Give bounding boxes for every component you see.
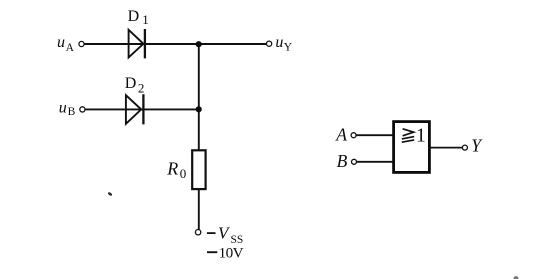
svg-text:V: V	[218, 224, 231, 243]
label uA	[57, 34, 75, 54]
terminal uA	[79, 41, 84, 46]
terminal -VSS	[195, 230, 200, 235]
terminal A	[351, 133, 356, 138]
label -10V	[207, 244, 244, 261]
svg-text:10V: 10V	[219, 244, 244, 261]
stray mark	[107, 192, 112, 197]
svg-text:1: 1	[416, 125, 426, 146]
svg-text:D: D	[128, 8, 140, 25]
terminal uY	[267, 41, 272, 46]
resistor R0	[192, 150, 205, 189]
stray dot bottom right	[514, 276, 519, 279]
svg-text:B: B	[337, 151, 348, 171]
svg-text:0: 0	[180, 166, 187, 181]
svg-text:A: A	[335, 124, 347, 144]
svg-text:A: A	[66, 42, 75, 54]
or-gate U1 box	[394, 122, 430, 173]
node junction dot at D2 branch	[196, 106, 202, 112]
svg-text:Y: Y	[284, 42, 293, 54]
svg-text:u: u	[57, 34, 65, 51]
terminal uB	[80, 107, 85, 112]
label uB	[59, 99, 76, 118]
diode D2	[126, 94, 143, 124]
svg-text:D: D	[125, 75, 137, 92]
wire gate input A	[356, 134, 394, 136]
svg-text:2: 2	[138, 80, 145, 95]
svg-text:Y: Y	[471, 136, 483, 156]
svg-text:u: u	[275, 34, 283, 51]
wire gate output Y	[429, 147, 462, 149]
svg-text:1: 1	[142, 12, 149, 27]
wire D1 cathode to junction and output	[129, 43, 267, 45]
diode D1	[129, 29, 145, 58]
svg-text:u: u	[59, 99, 67, 116]
svg-text:B: B	[68, 106, 76, 118]
label R0	[166, 158, 186, 181]
label uY	[275, 34, 292, 54]
svg-text:R: R	[166, 158, 178, 178]
wire uB input to diode D2 anode	[85, 108, 126, 110]
label D1	[128, 8, 149, 27]
wire resistor R0 bottom lead to -VSS terminal	[198, 190, 200, 230]
or-gate symbol &#8925;1	[402, 129, 414, 142]
label -VSS	[207, 224, 243, 246]
node junction dot at uY branch	[196, 41, 202, 47]
wire D2 cathode to junction	[126, 108, 199, 110]
wire vertical bus from node Y to resistor R0 top	[198, 44, 200, 151]
wire uA input to diode D1 anode	[84, 43, 128, 45]
terminal B	[352, 159, 357, 164]
terminal Y	[462, 145, 467, 150]
label D2	[125, 75, 145, 96]
wire gate input B	[357, 161, 394, 163]
